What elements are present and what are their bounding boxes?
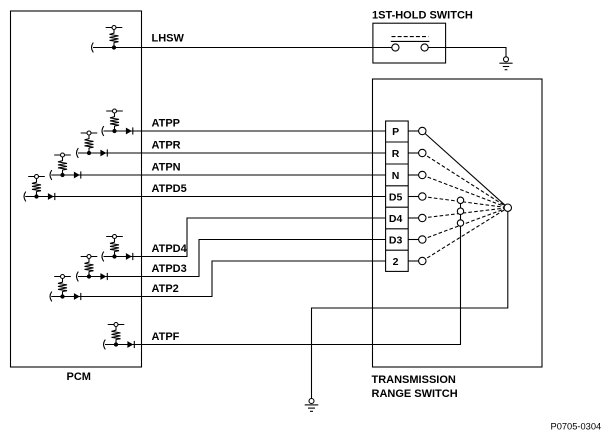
junction dot (ATPR) (87, 151, 90, 154)
pull-up supply rail bar (ATPD3) (81, 256, 98, 258)
wire LHSW: PCM to 1st-hold switch (93, 47, 392, 49)
svg-text:D5: D5 (389, 191, 403, 203)
1st-hold switch left contact (392, 44, 399, 51)
pull-up supply rail bar (ATP2) (54, 276, 71, 278)
terminal label 2 (393, 256, 399, 268)
net label ATPD3 (152, 263, 187, 275)
svg-text:PCM: PCM (67, 371, 91, 383)
wiper travel dashed line to contact R (422, 153, 508, 208)
pull-up supply terminal circle (ATPD3) (87, 255, 91, 259)
junction dot (ATP2) (61, 295, 64, 298)
svg-text:ATPR: ATPR (152, 139, 181, 151)
cell divider above D4 (386, 206, 409, 208)
diode (ATPP) (126, 127, 133, 134)
ground (transmission range switch wiper) (305, 399, 319, 412)
terminal label P (392, 126, 399, 138)
diode (ATPF) (127, 341, 134, 348)
diode (ATP2) (74, 293, 81, 300)
cell divider above D5 (386, 185, 409, 187)
wiper travel dashed line to contact D5 (422, 197, 508, 208)
switch position terminal block outline (386, 121, 409, 271)
forward-range contact circle 1 (ATPF) (457, 197, 463, 203)
svg-text:ATP2: ATP2 (152, 283, 179, 295)
svg-text:D3: D3 (389, 234, 403, 246)
pull-up supply terminal circle (ATPP) (113, 109, 117, 113)
terminal label N (392, 170, 400, 182)
wiper contact line: P position (closed, solid) (422, 131, 508, 208)
pull-up resistor (LHSW) (110, 29, 119, 47)
1st-hold switch movable contact bar (391, 40, 430, 42)
1st-hold switch actuation dashed line (392, 36, 429, 38)
wire-break continuation symbol (ATPF) (104, 340, 106, 350)
TRANSMISSION RANGE SWITCH label (372, 374, 458, 400)
forward-range contact circle 2 (ATPF) (457, 208, 463, 214)
wire-break continuation symbol (ATPD4) (102, 252, 104, 262)
contact stub wire R (408, 152, 418, 154)
pull-up resistor (ATP2) (58, 278, 67, 296)
wire-break continuation symbol (ATPD5) (24, 192, 26, 202)
junction dot (ATPD5) (35, 195, 38, 198)
contact stub wire D4 (408, 217, 418, 219)
wiper travel dashed line to contact N (422, 175, 508, 208)
diode (ATPN) (74, 171, 81, 178)
ground (1st-hold switch) (499, 57, 512, 70)
pull-up resistor (ATPR) (85, 135, 94, 153)
diode (ATPD5) (48, 193, 55, 200)
contact stub wire D5 (408, 196, 418, 198)
svg-text:N: N (392, 170, 400, 182)
wiper travel dashed line to contact D4 (422, 208, 508, 218)
wiper travel dashed line to contact D3 (422, 208, 508, 240)
svg-text:ATPF: ATPF (152, 331, 180, 343)
pull-up resistor (ATPD5) (32, 178, 41, 196)
svg-text:D4: D4 (389, 213, 403, 225)
contact stub wire N (408, 174, 418, 176)
svg-text:ATPD3: ATPD3 (152, 263, 187, 275)
transmission range switch box (373, 79, 543, 367)
svg-text:RANGE SWITCH: RANGE SWITCH (372, 388, 458, 400)
contact circle 2 (419, 257, 426, 264)
wiper circle (504, 204, 511, 211)
contact circle R (419, 149, 426, 156)
svg-text:ATPD4: ATPD4 (152, 243, 188, 255)
wire-break continuation symbol (ATPD3) (77, 272, 79, 282)
cell divider above R (386, 141, 409, 143)
wire ATP2 to contact 2 (with jog) (51, 261, 385, 297)
pull-up supply rail bar (ATPN) (54, 154, 71, 156)
diode (ATPR) (100, 149, 107, 156)
net label ATPR (152, 139, 181, 151)
wire-break continuation symbol (ATP2) (50, 292, 52, 302)
diode (ATPD3) (100, 273, 107, 280)
net label ATPD5 (152, 183, 187, 195)
pull-up supply terminal circle (ATPN) (61, 153, 65, 157)
contact stub wire P (408, 130, 418, 132)
junction dot (ATPD3) (87, 275, 90, 278)
pull-up supply terminal circle (ATPD5) (35, 175, 39, 179)
PCM label (67, 371, 91, 383)
wire-break continuation symbol (ATPN) (50, 170, 52, 180)
contact circle N (419, 171, 426, 178)
wire ATPF to forward-range contact set (105, 200, 461, 344)
diode (ATPD4) (126, 253, 133, 260)
junction dot (ATPN) (61, 173, 64, 176)
pull-up supply rail bar (ATPD4) (106, 236, 123, 238)
cell divider above D3 (386, 228, 409, 230)
cell divider above N (386, 163, 409, 165)
terminal label D4 (389, 213, 403, 225)
pull-up supply rail bar (LHSW) (106, 27, 123, 29)
net label LHSW (152, 32, 185, 44)
cell divider above 2 (386, 249, 409, 251)
svg-text:ATPD5: ATPD5 (152, 183, 187, 195)
pull-up supply rail bar (ATPR) (81, 132, 98, 134)
svg-text:TRANSMISSION: TRANSMISSION (372, 374, 456, 386)
contact circle P (419, 127, 426, 134)
forward-range contact circle 3 (ATPF) (457, 220, 463, 226)
PCM module box (11, 11, 142, 367)
wire ATPD3 to contact D3 (with jog) (78, 240, 386, 277)
svg-text:ATPN: ATPN (152, 161, 181, 173)
pull-up supply rail bar (ATPP) (106, 110, 123, 112)
wire-break continuation symbol (ATPP) (102, 126, 104, 136)
pull-up resistor (ATPN) (58, 157, 67, 175)
svg-text:ATPP: ATPP (152, 117, 181, 129)
1st-hold switch box (373, 23, 446, 63)
net label ATP2 (152, 283, 179, 295)
svg-text:P: P (392, 126, 399, 138)
net label ATPP (152, 117, 181, 129)
contact circle D4 (419, 214, 426, 221)
svg-text:P0705-0304: P0705-0304 (551, 422, 602, 432)
net label ATPN (152, 161, 181, 173)
svg-text:1ST-HOLD SWITCH: 1ST-HOLD SWITCH (372, 10, 473, 22)
net label ATPD4 (152, 243, 188, 255)
terminal label D5 (389, 191, 403, 203)
wire ATPN to contact N (51, 174, 385, 176)
junction dot (ATPP) (113, 129, 116, 132)
terminal label D3 (389, 234, 403, 246)
pull-up supply terminal circle (LHSW) (112, 26, 116, 30)
contact circle D3 (419, 236, 426, 243)
contact circle D5 (419, 193, 426, 200)
wire ATPR to contact R (78, 152, 386, 154)
1st-hold switch right contact (421, 44, 428, 51)
wire ATPP to contact P (104, 130, 386, 132)
contact stub wire D3 (408, 239, 418, 241)
pull-up resistor (ATPF) (112, 326, 121, 344)
wire ATPD4 to contact D4 (with jog) (104, 218, 386, 257)
pull-up supply terminal circle (ATPR) (87, 131, 91, 135)
wire 1st-hold switch to ground (428, 48, 506, 57)
pull-up resistor (ATPP) (110, 113, 119, 131)
pull-up supply terminal circle (ATPD4) (113, 235, 117, 239)
wire-break continuation symbol (LHSW) (92, 43, 94, 53)
contact stub wire 2 (408, 260, 418, 262)
junction dot (LHSW) (112, 46, 115, 49)
wiper travel dashed line to contact 2 (422, 208, 508, 261)
drawing number P0705-0304 (551, 422, 602, 432)
pull-up supply terminal circle (ATPF) (114, 323, 118, 327)
junction dot (ATPD4) (113, 255, 116, 258)
pull-up resistor (ATPD3) (85, 258, 94, 276)
pull-up resistor (ATPD4) (110, 238, 119, 256)
wire wiper to ground (312, 211, 508, 398)
wire-break continuation symbol (ATPR) (77, 148, 79, 158)
terminal label R (392, 148, 400, 160)
1ST-HOLD SWITCH label (372, 10, 473, 22)
pull-up supply rail bar (ATPD5) (28, 176, 45, 178)
net label ATPF (152, 331, 180, 343)
svg-text:R: R (392, 148, 400, 160)
pull-up supply rail bar (ATPF) (108, 324, 125, 326)
svg-text:LHSW: LHSW (152, 32, 185, 44)
junction dot (ATPF) (114, 343, 117, 346)
wire ATPD5 to contact D5 (25, 196, 385, 198)
pull-up supply terminal circle (ATP2) (61, 275, 65, 279)
svg-text:2: 2 (393, 256, 399, 268)
